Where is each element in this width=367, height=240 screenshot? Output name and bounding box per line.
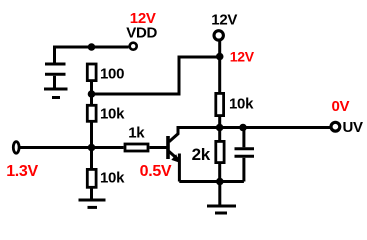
svg-text:10k: 10k xyxy=(100,169,125,186)
terminal UV xyxy=(331,122,340,131)
capacitor C1 xyxy=(45,64,66,88)
transistor Q1 base bar xyxy=(166,136,170,159)
capacitor C2 xyxy=(235,149,255,182)
wire capacitor drop left xyxy=(53,46,56,63)
node junction J3 xyxy=(88,144,96,152)
svg-text:12V: 12V xyxy=(211,12,237,29)
wire J7 to ground xyxy=(218,182,221,205)
svg-text:10k: 10k xyxy=(100,106,125,123)
wire J2 to right riser xyxy=(92,93,181,96)
transistor Q1 emitter xyxy=(169,151,180,181)
wire input to J3 xyxy=(20,146,124,149)
wire R6 to bottom rail xyxy=(218,163,221,182)
wire emitter bottom rail xyxy=(179,180,244,183)
svg-text:VDD: VDD xyxy=(126,25,157,42)
transistor Q1 emitter arrowhead xyxy=(171,154,180,163)
node junction J4 xyxy=(216,53,224,61)
svg-text:1.3V: 1.3V xyxy=(6,163,38,180)
svg-text:12V: 12V xyxy=(230,49,255,65)
terminal input 1.3V xyxy=(13,142,19,154)
terminal VDD xyxy=(130,43,137,50)
wire R2 to J3 xyxy=(90,121,93,147)
node junction J2 xyxy=(88,90,96,98)
wire J5 to R6 xyxy=(218,128,221,142)
node junction J7 xyxy=(216,178,224,186)
ground under C1 xyxy=(44,89,68,98)
wire 1k to base xyxy=(150,146,167,149)
wire J4 to R5 xyxy=(218,57,221,94)
svg-text:1k: 1k xyxy=(128,124,145,141)
wire R1 to node B xyxy=(90,81,93,94)
resistor R2 10k upper xyxy=(87,105,96,121)
ground under J7 xyxy=(207,206,236,213)
wire J2 to R2 xyxy=(90,94,93,105)
resistor R3 10k lower xyxy=(87,169,96,187)
svg-text:100: 100 xyxy=(100,65,124,82)
terminal 12V top xyxy=(214,31,223,40)
resistor R6 2k xyxy=(216,141,224,162)
wire J3 to R3 xyxy=(90,148,93,170)
wire R3 to ground xyxy=(90,187,93,198)
svg-text:2k: 2k xyxy=(192,145,211,164)
resistor R1 100 xyxy=(87,64,96,81)
resistor R4 1k xyxy=(125,144,148,151)
wire R5 to collector rail xyxy=(218,116,221,128)
svg-text:10k: 10k xyxy=(229,95,254,112)
wire terminal to J4 xyxy=(218,41,221,57)
wire riser up to 12V node xyxy=(179,57,220,96)
resistor R5 10k right xyxy=(216,93,224,115)
wire VDD top rail xyxy=(55,46,129,49)
svg-text:0.5V: 0.5V xyxy=(140,163,172,180)
node junction J1 on VDD rail xyxy=(88,43,96,51)
transistor Q1 collector xyxy=(169,128,178,142)
node junction J6 xyxy=(239,124,247,132)
wire J6 to capacitor C2 xyxy=(242,128,245,148)
svg-text:0V: 0V xyxy=(332,98,350,115)
svg-text:UV: UV xyxy=(343,119,364,136)
ground under R3 xyxy=(79,200,106,207)
wire collector rail xyxy=(177,126,331,129)
node junction J5 xyxy=(216,124,224,132)
